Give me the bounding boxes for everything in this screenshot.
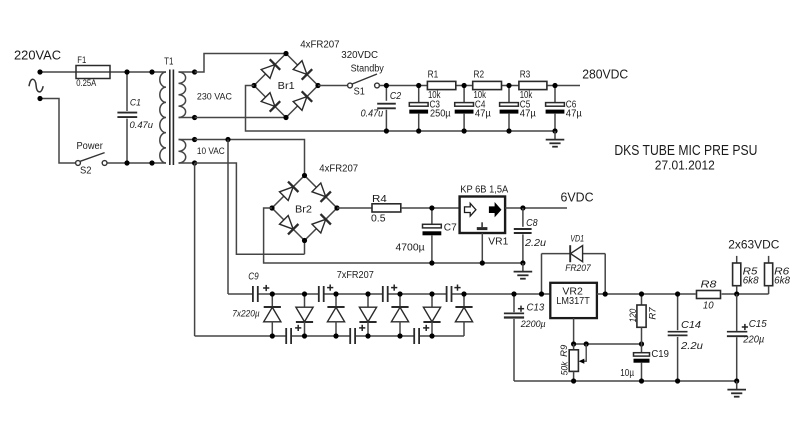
svg-text:7xFR207: 7xFR207 — [337, 270, 374, 281]
svg-text:4xFR207: 4xFR207 — [319, 164, 358, 175]
svg-text:R3: R3 — [520, 69, 531, 80]
svg-text:S2: S2 — [80, 166, 92, 177]
svg-text:R7: R7 — [647, 307, 658, 320]
svg-text:KP 6B 1,5A: KP 6B 1,5A — [460, 185, 508, 196]
svg-text:47µ: 47µ — [475, 109, 491, 120]
svg-text:C2: C2 — [390, 91, 402, 102]
svg-text:Br2: Br2 — [295, 204, 312, 215]
svg-text:4700µ: 4700µ — [396, 242, 425, 253]
svg-text:220µ: 220µ — [742, 334, 764, 345]
svg-text:6k8: 6k8 — [774, 275, 790, 286]
svg-text:0.47u: 0.47u — [361, 109, 384, 120]
svg-text:S1: S1 — [354, 87, 366, 98]
svg-text:T1: T1 — [164, 57, 174, 68]
svg-text:LM317T: LM317T — [556, 295, 590, 307]
svg-text:R9: R9 — [559, 344, 570, 357]
svg-text:50k: 50k — [560, 361, 571, 376]
svg-text:C15: C15 — [749, 318, 767, 330]
svg-text:C9: C9 — [248, 272, 259, 283]
svg-text:2.2u: 2.2u — [524, 238, 547, 249]
svg-text:R2: R2 — [474, 69, 485, 80]
svg-text:220VAC: 220VAC — [14, 48, 61, 62]
svg-text:10: 10 — [703, 300, 714, 311]
svg-text:4xFR207: 4xFR207 — [300, 40, 340, 51]
svg-text:C7: C7 — [444, 223, 457, 234]
svg-text:47µ: 47µ — [520, 109, 536, 120]
svg-text:280VDC: 280VDC — [582, 67, 628, 81]
svg-text:C14: C14 — [681, 319, 701, 331]
svg-text:C13: C13 — [527, 303, 545, 314]
svg-text:6VDC: 6VDC — [561, 191, 594, 205]
svg-text:7x220µ: 7x220µ — [232, 309, 260, 320]
svg-text:F1: F1 — [77, 55, 86, 66]
svg-text:0.47u: 0.47u — [130, 120, 154, 131]
svg-text:27.01.2012: 27.01.2012 — [655, 157, 715, 172]
svg-text:47µ: 47µ — [566, 109, 582, 120]
svg-text:2x63VDC: 2x63VDC — [728, 238, 779, 252]
svg-text:6k8: 6k8 — [743, 275, 759, 286]
svg-text:2.2u: 2.2u — [680, 341, 704, 352]
svg-text:R4: R4 — [372, 194, 387, 205]
svg-text:0.25A: 0.25A — [76, 78, 97, 89]
svg-text:Standby: Standby — [351, 63, 384, 74]
svg-text:10µ: 10µ — [620, 368, 634, 379]
svg-text:R8: R8 — [701, 280, 717, 291]
svg-text:VD1: VD1 — [570, 233, 584, 243]
svg-text:VR1: VR1 — [488, 236, 508, 247]
svg-text:250µ: 250µ — [430, 109, 451, 120]
svg-text:C19: C19 — [651, 349, 669, 360]
svg-text:120: 120 — [628, 308, 639, 322]
svg-text:320VDC: 320VDC — [341, 50, 378, 61]
svg-text:Power: Power — [77, 141, 104, 152]
svg-text:Br1: Br1 — [278, 81, 295, 92]
svg-text:C8: C8 — [526, 218, 538, 229]
svg-text:C1: C1 — [130, 98, 141, 109]
svg-text:FR207: FR207 — [565, 263, 591, 274]
svg-text:0.5: 0.5 — [371, 214, 386, 225]
svg-text:230 VAC: 230 VAC — [197, 92, 232, 103]
svg-text:2200µ: 2200µ — [520, 319, 546, 330]
svg-text:R1: R1 — [428, 69, 439, 80]
svg-text:10 VAC: 10 VAC — [197, 146, 225, 157]
